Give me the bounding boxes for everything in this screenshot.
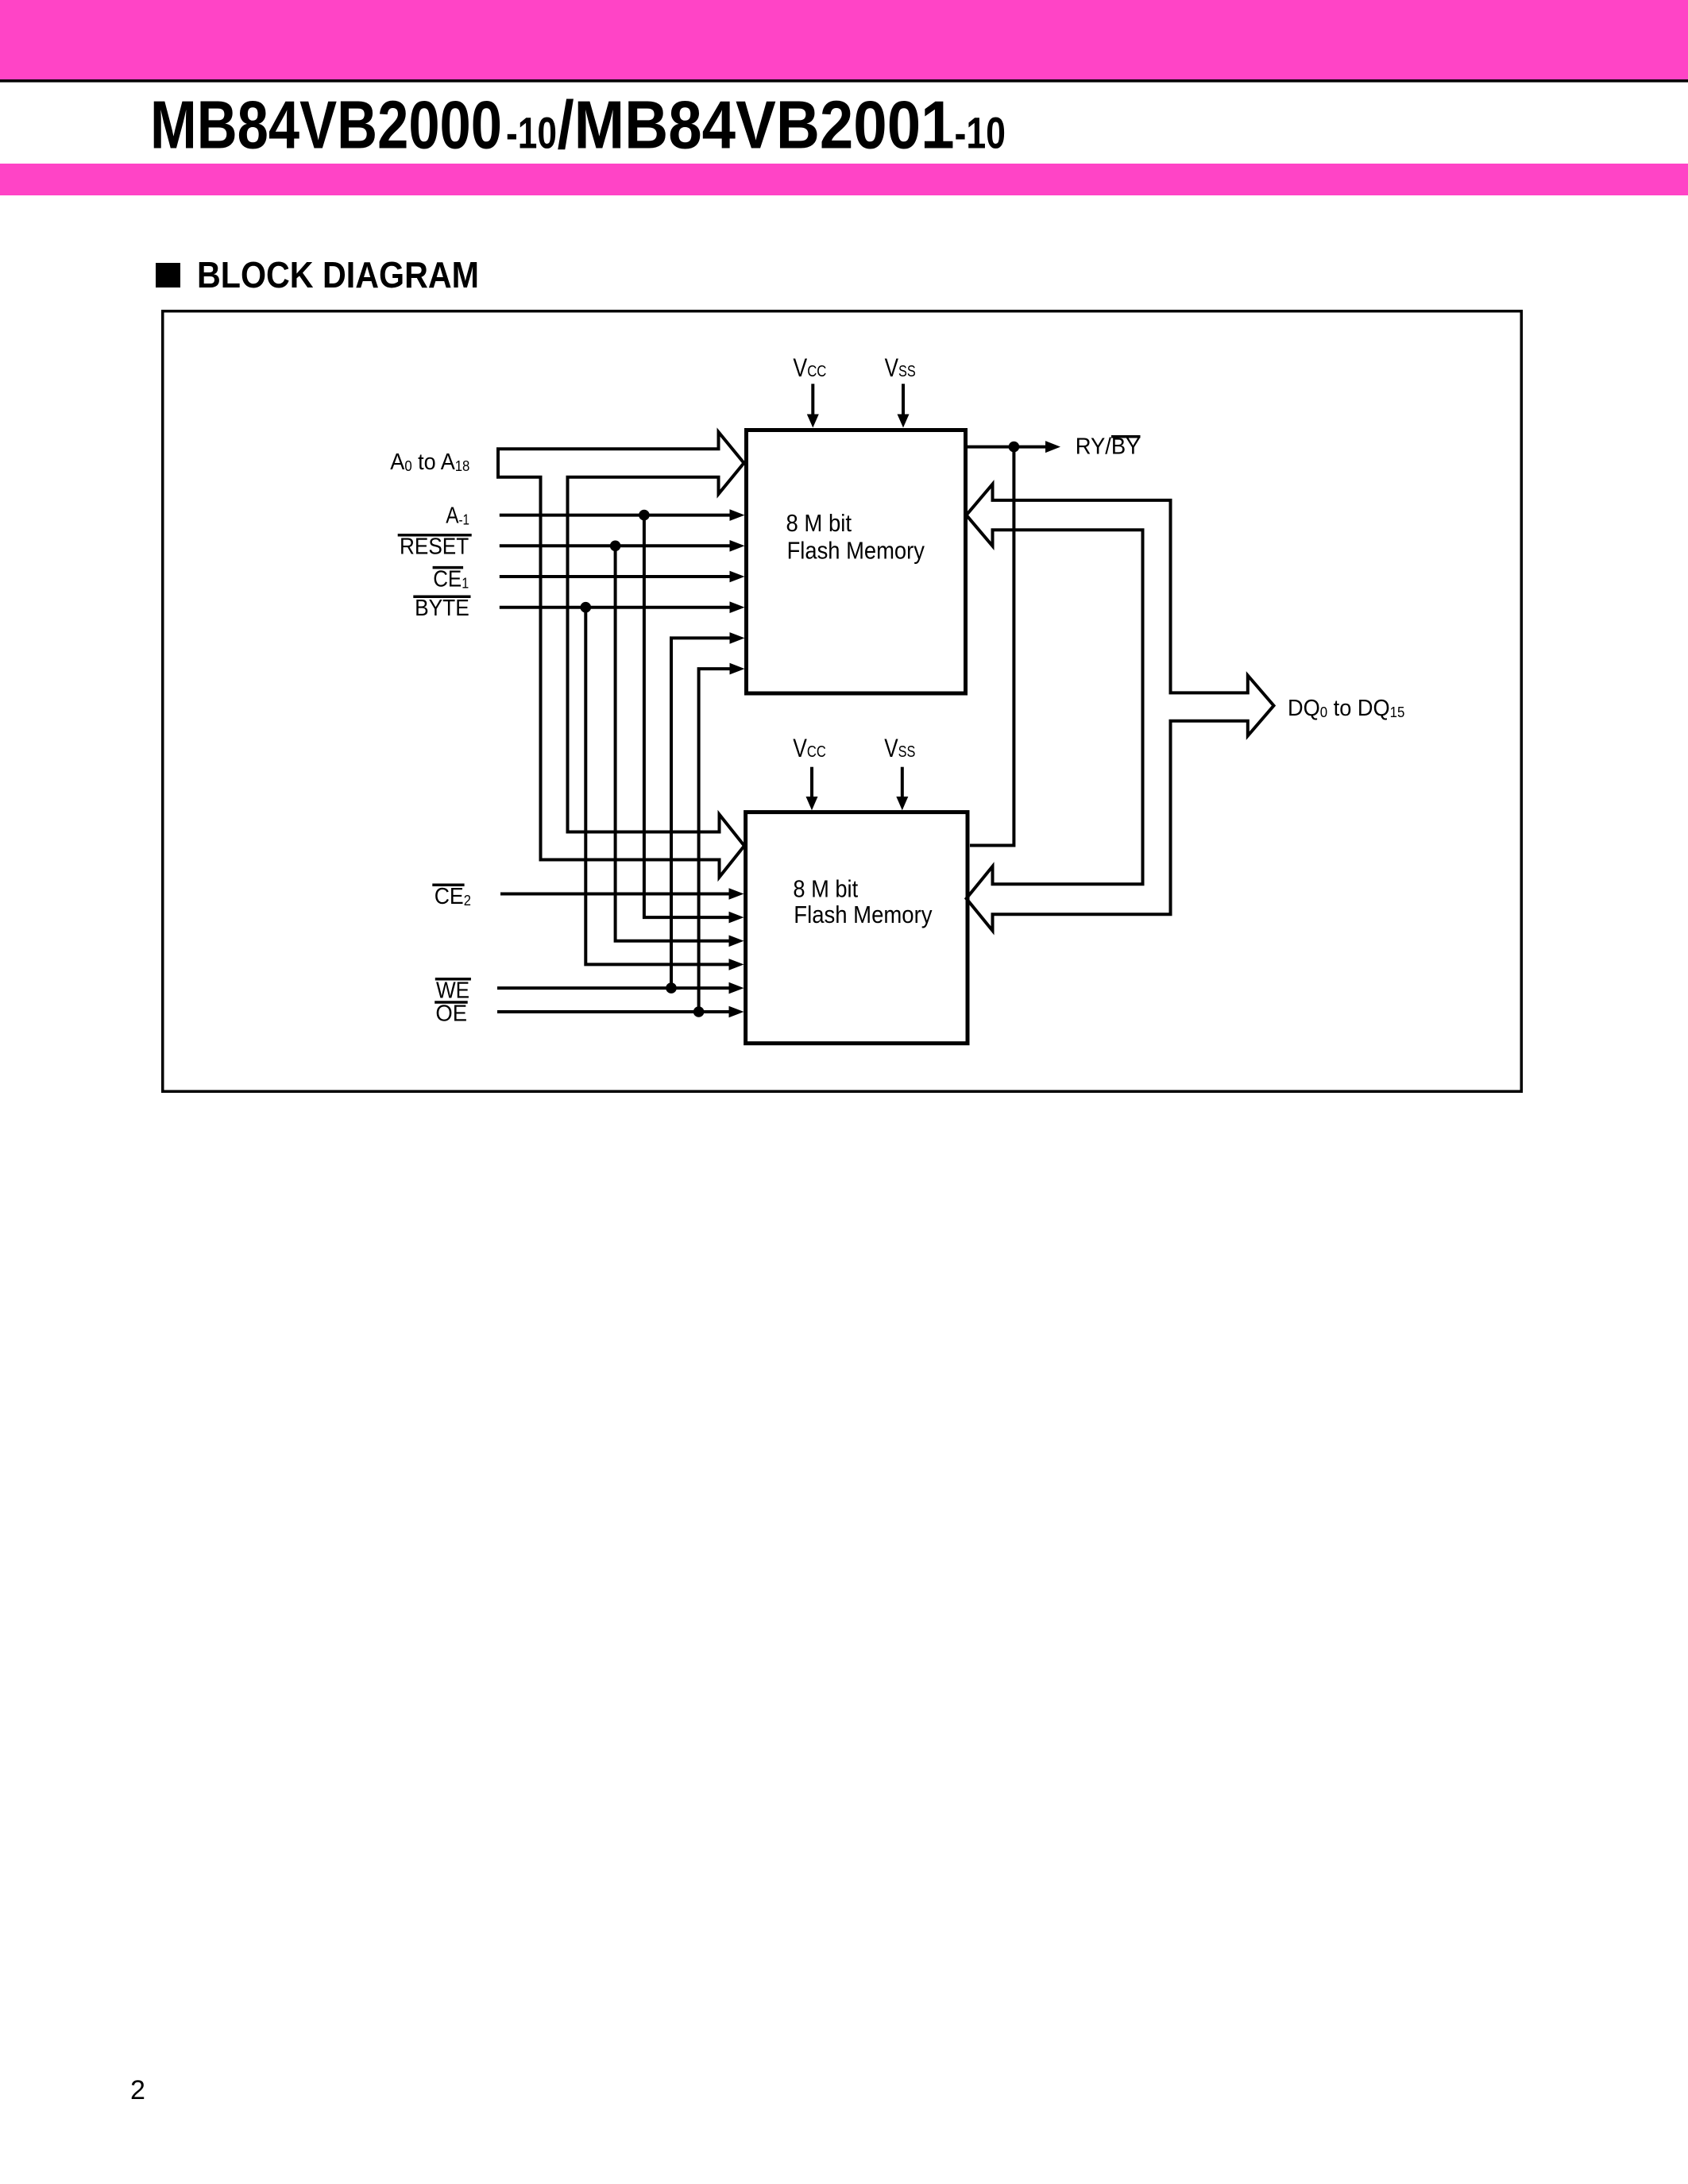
wire BYTE to U1 [500, 601, 745, 613]
wire BYTE branch down to U2 [585, 608, 744, 970]
header top magenta band [0, 0, 1688, 79]
node BYTE junction dot [581, 602, 592, 613]
svg-text:Flash Memory: Flash Memory [794, 901, 933, 928]
label A-1 [446, 503, 469, 528]
svg-text:BYTE: BYTE [415, 596, 469, 621]
svg-text:RESET: RESET [400, 534, 469, 559]
svg-text:-10: -10 [506, 108, 557, 158]
wire WE branch up to U1 [671, 632, 745, 988]
node OE junction dot [693, 1006, 705, 1017]
wire CE2 to U2 [500, 888, 744, 900]
diagram outer frame [163, 311, 1522, 1092]
label RESET (overline) [398, 534, 472, 559]
node DQ0-DQ15 data bus (hollow arrows U1/U2 and DQ output) [967, 484, 1274, 931]
wire WE to U2 [497, 982, 744, 994]
svg-text:8 M bit: 8 M bit [786, 509, 852, 537]
node WE junction dot [666, 982, 677, 994]
wire CE1 to U1 [500, 571, 745, 583]
page number 2 [130, 2075, 145, 2105]
node A0-A18 address bus (hollow arrow into U1, tee down to U2 arrow) [498, 432, 744, 878]
ground Vss pin U1 [885, 353, 916, 427]
wire A-1 branch down to U2 [644, 515, 744, 924]
svg-text:/MB84VB2001: /MB84VB2001 [558, 88, 955, 164]
header lower magenta band [0, 164, 1688, 195]
header rule line [0, 79, 1688, 83]
svg-text:-10: -10 [955, 108, 1006, 158]
flash memory U1 (upper 8 M bit box) [747, 430, 966, 694]
wire RY/BY tie from U2 [970, 447, 1014, 846]
label A0 to A18 [390, 450, 469, 475]
wire RESET to U1 [500, 540, 745, 552]
svg-text:MB84VB2000: MB84VB2000 [150, 88, 502, 164]
label CE1 (overline) [433, 566, 469, 592]
svg-text:OE: OE [435, 1001, 467, 1027]
node RESET junction dot [610, 541, 621, 552]
label RY/BY (overline on BY) [1076, 434, 1141, 460]
svg-text:Flash Memory: Flash Memory [787, 537, 925, 565]
node RY/BY junction dot [1009, 442, 1020, 453]
wire RY/BY output of U1 [968, 441, 1060, 453]
flash memory U2 (lower 8 M bit box) [746, 812, 968, 1044]
svg-text:2: 2 [130, 2075, 145, 2105]
power Vcc pin U2 [793, 734, 825, 810]
power Vcc pin U1 [793, 353, 826, 427]
label WE (overline) [435, 978, 471, 1003]
node A-1 junction dot [639, 510, 650, 521]
label DQ0 to DQ15 [1288, 696, 1404, 721]
svg-text:8 M bit: 8 M bit [793, 874, 858, 902]
ground Vss pin U2 [884, 734, 915, 810]
svg-text:DQ0 to DQ15: DQ0 to DQ15 [1288, 696, 1404, 721]
label OE (overline) [435, 1001, 468, 1027]
label CE2 (overline) [432, 884, 471, 909]
wire RESET branch down to U2 [616, 546, 744, 947]
wire A-1 to U1 [500, 509, 745, 521]
wire OE branch up to U1 [699, 663, 745, 1012]
label BYTE (overline) [413, 596, 470, 621]
svg-text:WE: WE [436, 978, 469, 1003]
title MB84VB2000-10/MB84VB2001-10 [150, 88, 1006, 164]
section heading BLOCK DIAGRAM [156, 254, 479, 295]
wire OE to U2 [497, 1006, 744, 1018]
svg-text:BLOCK DIAGRAM: BLOCK DIAGRAM [197, 254, 479, 295]
